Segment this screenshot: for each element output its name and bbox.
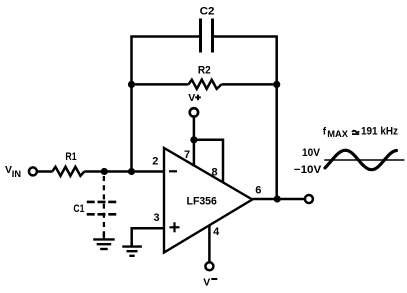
- svg-text:V: V: [203, 277, 210, 289]
- wire: R2 branch right: [222, 83, 277, 86]
- sine wave: [325, 150, 397, 170]
- svg-text:2: 2: [152, 155, 158, 167]
- sine wave axis line: [324, 159, 404, 161]
- svg-text:191 kHz: 191 kHz: [361, 126, 398, 138]
- svg-text:C1: C1: [73, 203, 84, 215]
- junction dot (right vertical / R2): [273, 81, 280, 88]
- svg-text:MAX: MAX: [327, 129, 348, 139]
- terminal V- open circle: [205, 262, 213, 270]
- op-amp minus input sign: [169, 170, 177, 172]
- capacitor C1 top plate: [87, 201, 117, 204]
- junction dot (left vertical / R2): [128, 81, 135, 88]
- wire: top C2 branch right: [213, 35, 278, 38]
- junction dot (V+ / pin8): [190, 136, 197, 143]
- ground (pin 3): [122, 247, 142, 256]
- wire: output to terminal: [252, 198, 305, 201]
- wire: pin 8 loop: [194, 140, 223, 183]
- terminal output open circle: [305, 195, 313, 203]
- terminal V+ open circle: [190, 108, 198, 116]
- wire: pin 4 lead to V-: [208, 226, 211, 263]
- capacitor C1 bottom plate: [87, 213, 117, 216]
- resistor R1: [52, 167, 84, 176]
- label fMAX = 191 kHz: [323, 126, 399, 140]
- junction node A (R1 / C1): [101, 168, 108, 175]
- wire: pin 3 to ground: [132, 228, 164, 245]
- wire: V+ lead down to pin 7: [193, 117, 196, 167]
- wire: top C2 branch left: [130, 35, 200, 38]
- svg-text:R2: R2: [198, 65, 211, 77]
- svg-text:C2: C2: [200, 5, 215, 17]
- svg-text:10V: 10V: [302, 147, 321, 159]
- svg-text:6: 6: [255, 185, 261, 197]
- svg-text:V: V: [188, 92, 195, 104]
- svg-text:4: 4: [213, 226, 220, 238]
- svg-text:3: 3: [153, 212, 159, 224]
- capacitor C1 dashed lead: [103, 176, 105, 236]
- wire: input line R1 to op-amp pin 2: [84, 170, 164, 173]
- capacitor C2: [199, 19, 202, 53]
- junction dot (output / right vertical): [274, 195, 281, 202]
- wire: left feedback vertical: [130, 37, 133, 172]
- svg-text:IN: IN: [12, 169, 22, 179]
- svg-text:f: f: [323, 127, 327, 138]
- ground (under C1): [93, 239, 115, 249]
- terminal VIN open circle: [29, 167, 37, 175]
- junction node B (left vertical / input): [128, 168, 135, 175]
- resistor R2: [189, 80, 222, 89]
- wire: C1 ground stub: [103, 233, 105, 239]
- svg-text:8: 8: [212, 166, 218, 178]
- wire: input line left segment (VIN terminal to R1): [38, 170, 53, 173]
- svg-text:R1: R1: [65, 151, 76, 163]
- svg-text:7: 7: [184, 149, 190, 161]
- svg-text:−10V: −10V: [294, 164, 322, 176]
- wire: right feedback vertical: [275, 37, 278, 200]
- op-amp plus input sign: [170, 222, 180, 232]
- wire: R2 branch left: [132, 83, 189, 86]
- approx-equal symbol: [352, 131, 359, 134]
- op-amp U1 triangle: [164, 148, 252, 253]
- svg-text:LF356: LF356: [187, 195, 217, 207]
